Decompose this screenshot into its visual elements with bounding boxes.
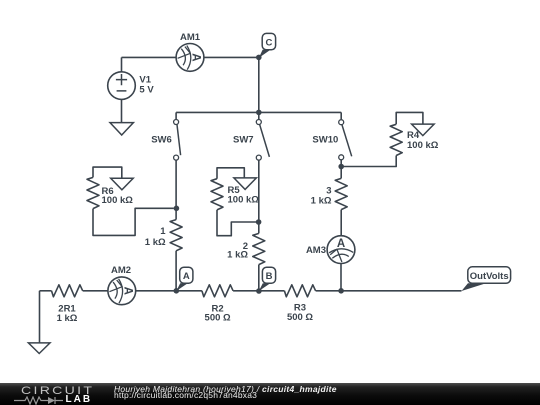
R6 bottom loop wire: [93, 208, 174, 235]
wire V1 to ground: [121, 99, 123, 122]
wire resistor 1 to node A: [175, 251, 177, 291]
resistor 1: [170, 220, 182, 251]
R5 bottom loop wire: [217, 210, 256, 236]
svg-text:SW10: SW10: [312, 135, 338, 146]
junction dot node between R5 and resistor 2: [256, 219, 262, 225]
voltage source V1: [108, 57, 136, 99]
R4 top wire to ground: [396, 112, 423, 124]
wire resistor 3 to AM3: [340, 210, 342, 236]
svg-text:1 kΩ: 1 kΩ: [145, 237, 166, 248]
ground bottom left: [28, 343, 50, 354]
wire 2R1 to AM2: [83, 290, 108, 292]
CircuitLab logo LAB: [66, 394, 93, 405]
svg-text:500 Ω: 500 Ω: [287, 312, 313, 323]
logo squiggle wire resistor diode: [14, 396, 66, 405]
switch SW10: [339, 112, 352, 159]
resistor R3: [284, 285, 315, 297]
bus junction dot: [256, 110, 262, 116]
svg-text:A: A: [183, 271, 190, 282]
ammeter AM3: [327, 236, 355, 264]
svg-text:B: B: [266, 271, 273, 282]
svg-text:100 kΩ: 100 kΩ: [228, 195, 260, 206]
R5 top wire to ground: [217, 168, 244, 179]
wire SW6 to resistor 1: [175, 160, 177, 219]
node A junction dot: [174, 288, 180, 294]
wire top from V1 to AM1: [122, 56, 177, 58]
svg-text:1 kΩ: 1 kΩ: [227, 249, 248, 260]
ground at R6: [111, 178, 134, 190]
footer url line: [114, 391, 257, 400]
CircuitLab logo CIRCUIT: [21, 385, 94, 397]
switch SW6: [174, 112, 181, 160]
ground at R4: [412, 124, 435, 136]
wire to left ground: [39, 291, 41, 343]
switch SW7: [256, 112, 269, 160]
svg-text:1: 1: [160, 226, 166, 237]
svg-text:AM3: AM3: [306, 245, 326, 256]
flag wedge OutVolts: [462, 283, 487, 291]
node B label box: [262, 267, 275, 283]
wire resistor 2 to node B: [258, 265, 260, 291]
node B junction dot: [256, 288, 262, 294]
wire SW7 down to resistor 2: [258, 160, 260, 233]
junction dot node between R6 and resistor 1: [174, 206, 180, 212]
bus wire: [176, 111, 341, 113]
flag wedge B: [259, 283, 270, 291]
flag wedge A: [176, 283, 187, 291]
wire AM2 to node A: [136, 290, 202, 292]
node C junction dot: [256, 55, 262, 61]
footer author line: [114, 384, 337, 394]
node C label box: [262, 33, 275, 49]
wire SW10 to junction: [340, 160, 342, 179]
junction dot below SW10: [338, 164, 344, 170]
resistor R4: [390, 124, 402, 155]
wire from AM1 to node C junction: [204, 56, 259, 58]
resistor R2: [202, 285, 233, 297]
wire AM3 to bottom rail: [340, 264, 342, 291]
node A label box: [180, 267, 193, 283]
svg-text:SW7: SW7: [233, 134, 254, 145]
wire C down to bus: [258, 57, 260, 112]
R4 bottom wire to SW10 junction: [341, 156, 396, 167]
svg-text:AM1: AM1: [180, 32, 201, 43]
wire R2 to node B: [233, 290, 284, 292]
flag wedge C: [259, 50, 271, 58]
svg-text:100 kΩ: 100 kΩ: [102, 195, 134, 206]
R6 top wire to ground: [93, 167, 122, 178]
wire R3 to OutVolts: [316, 290, 462, 292]
resistor R6: [87, 177, 99, 208]
ground under V1: [110, 123, 133, 135]
node OutVolts label box: [468, 267, 511, 283]
junction dot at AM3 bottom: [338, 288, 344, 294]
svg-text:SW6: SW6: [151, 134, 172, 145]
resistor 2: [253, 233, 265, 264]
ground at R5: [234, 178, 257, 190]
resistor R5: [211, 179, 223, 210]
svg-text:AM2: AM2: [111, 265, 131, 276]
footer bar: [0, 383, 540, 405]
svg-text:1 kΩ: 1 kΩ: [311, 195, 332, 206]
resistor 2R1: [52, 285, 83, 297]
svg-text:1 kΩ: 1 kΩ: [57, 313, 78, 324]
svg-text:C: C: [265, 37, 272, 48]
wire left end to 2R1: [40, 290, 52, 292]
svg-text:100 kΩ: 100 kΩ: [407, 140, 439, 151]
ammeter AM2: [108, 277, 136, 305]
svg-text:OutVolts: OutVolts: [470, 271, 509, 282]
svg-text:5 V: 5 V: [139, 84, 154, 95]
resistor 3: [335, 178, 347, 209]
svg-text:500 Ω: 500 Ω: [205, 313, 231, 324]
ammeter AM1: [176, 44, 204, 72]
